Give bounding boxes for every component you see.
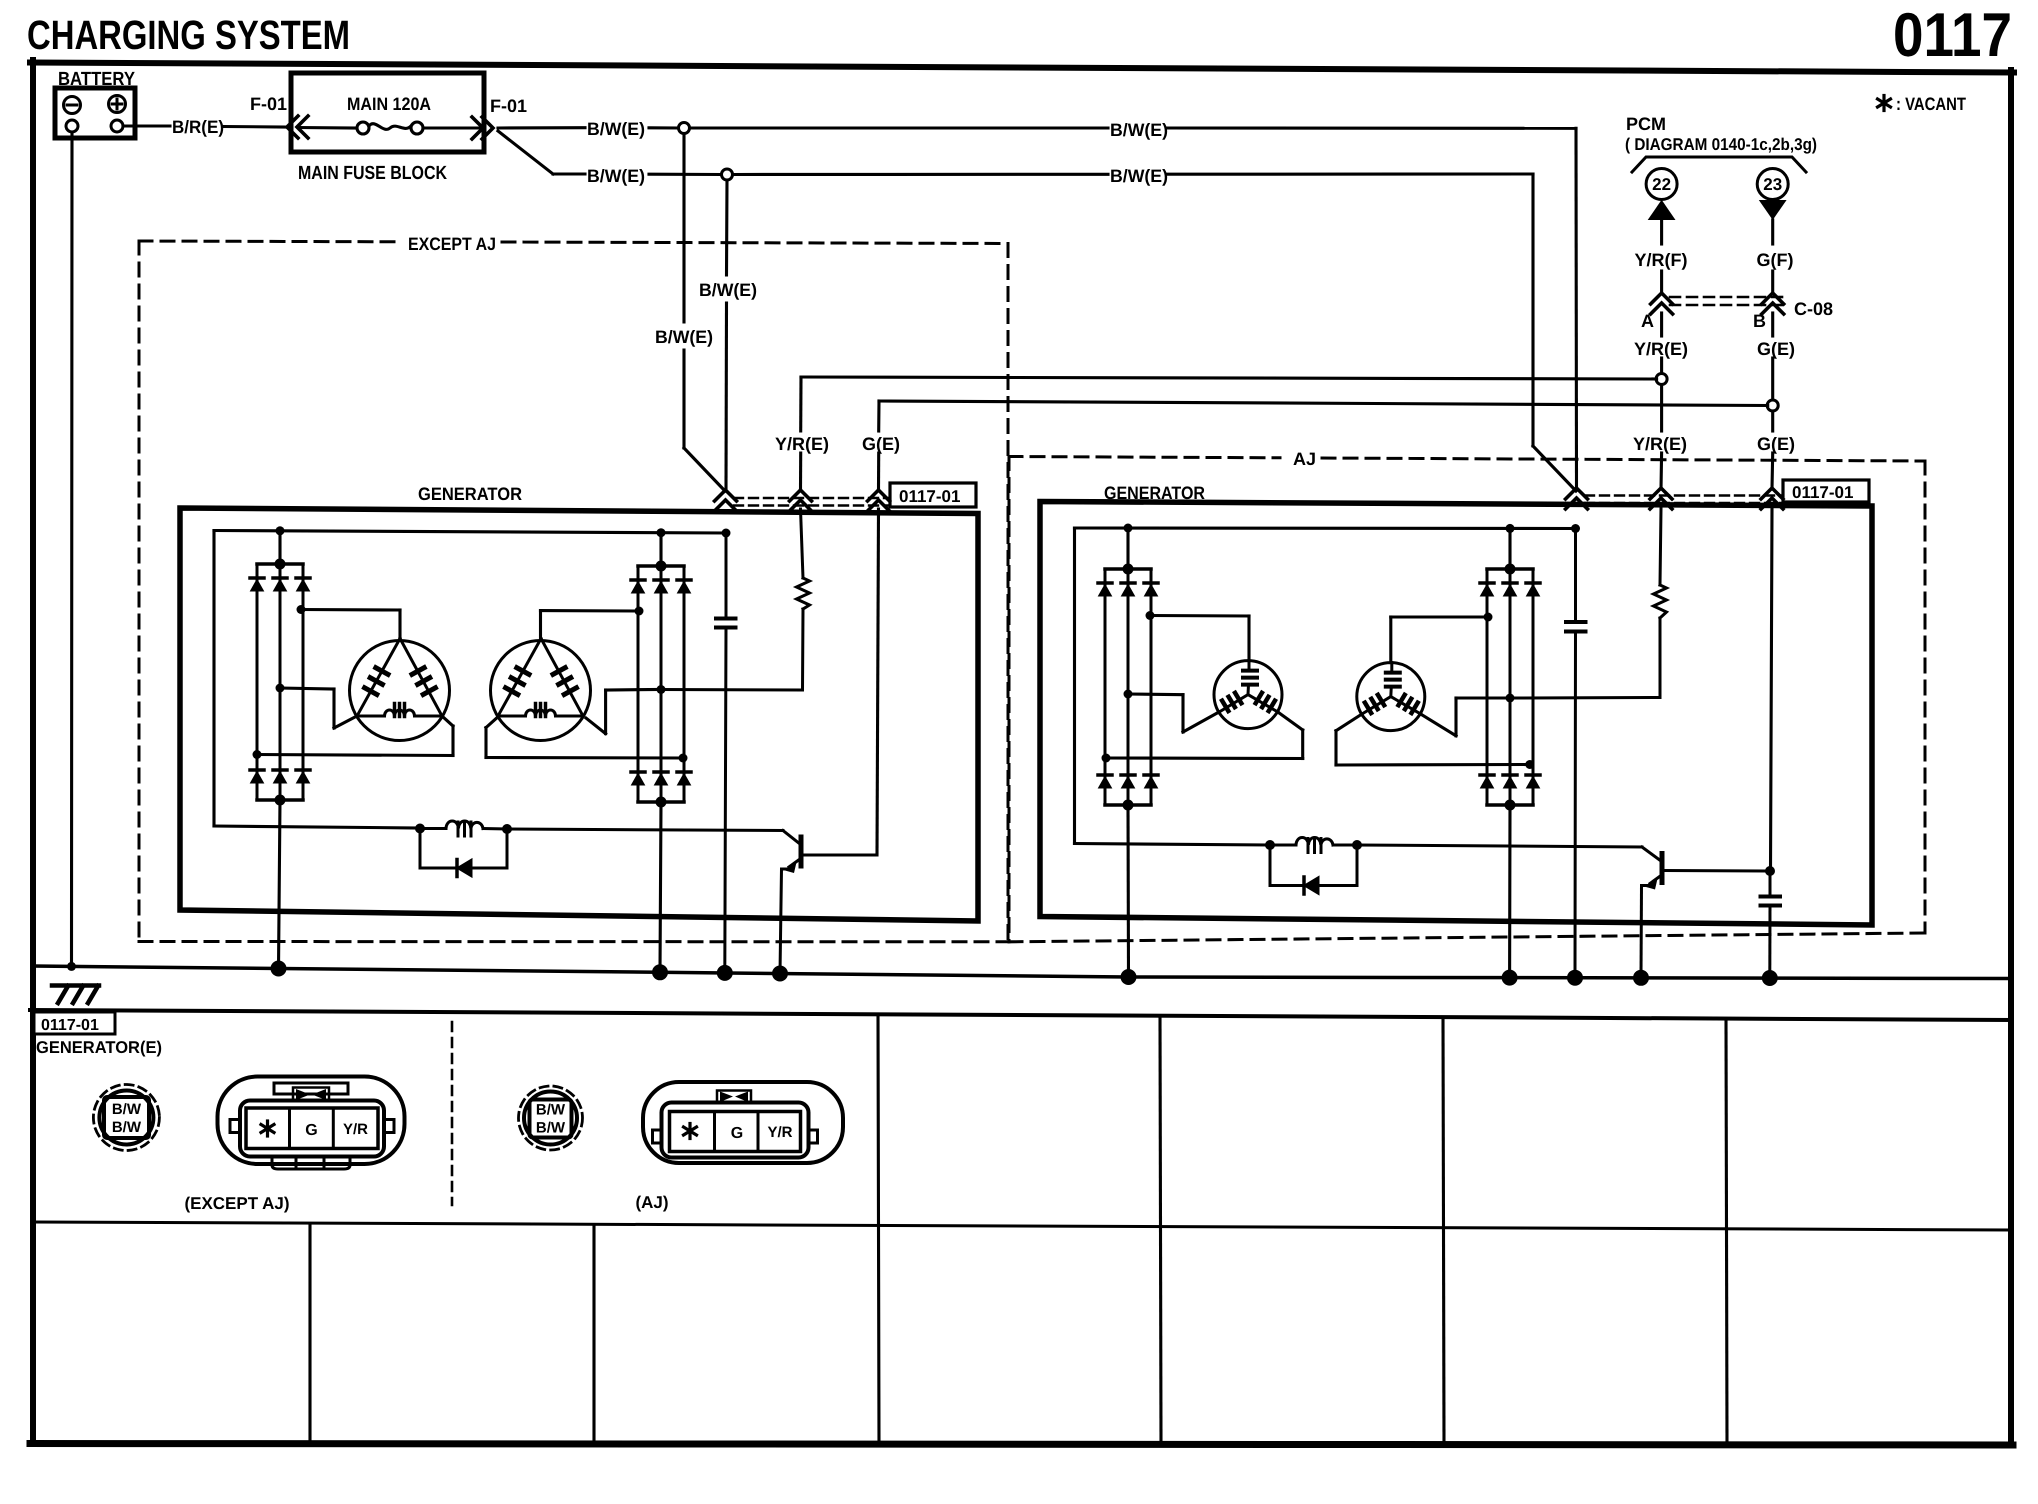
ground node transistor AJ <box>1633 970 1649 986</box>
rectifier 1 left generator <box>250 559 310 806</box>
wire battery negative to ground <box>67 132 76 971</box>
table row divider <box>33 1222 2011 1230</box>
connector C-08 pin B chevron <box>1753 293 1784 331</box>
node transistor base AJ <box>1765 866 1775 876</box>
label B/W(E) wire2 mid <box>1110 166 1168 186</box>
svg-text:Y/R(E): Y/R(E) <box>1634 339 1688 359</box>
svg-text:F-01: F-01 <box>490 96 527 116</box>
svg-text:Y/R: Y/R <box>767 1124 792 1141</box>
label B/W(E) wire2 left <box>587 166 645 186</box>
wire Y/R(E) branch to left generator <box>801 377 1657 489</box>
main fuse block box <box>291 73 484 152</box>
ground node rectifier1 AJ <box>1121 969 1137 985</box>
svg-text:B/W(E): B/W(E) <box>1110 120 1168 140</box>
label G(F) <box>1757 250 1794 270</box>
wire rectifier1 center down to ground <box>279 800 281 969</box>
stator 2 AJ generator <box>1357 663 1425 731</box>
ground node rectifier2 left <box>652 964 668 980</box>
wire Y/R(E) lower <box>1659 385 1663 490</box>
ground node rectifier1 left <box>271 961 287 977</box>
wire G(E) lower <box>1770 411 1774 489</box>
label B/W(E) wire1 left <box>587 119 645 139</box>
table top line <box>30 1010 2011 1020</box>
connector C-08 pin A chevron <box>1641 293 1673 331</box>
wire rectifier2 center down to ground <box>660 802 661 972</box>
node rail-rectifier1 AJ <box>1124 524 1133 533</box>
label C-08 <box>1794 299 1833 319</box>
label MAIN 120A <box>347 94 431 114</box>
svg-text:B/W(E): B/W(E) <box>587 166 645 186</box>
svg-text:B/W(E): B/W(E) <box>699 280 757 300</box>
svg-text:GENERATOR(E): GENERATOR(E) <box>36 1038 162 1057</box>
tag 0117-01 table <box>34 1012 115 1034</box>
wire G(E) into transistor base left generator <box>877 509 879 855</box>
internal top rail left generator <box>214 531 726 534</box>
svg-text:EXCEPT AJ: EXCEPT AJ <box>408 234 496 254</box>
capacitor 1 AJ generator <box>1566 529 1586 977</box>
wire Y/R(E) upper <box>1660 313 1663 374</box>
tap AJ rectifier2 phase V <box>1421 694 1515 736</box>
tap rectifier1 phase V <box>276 684 358 729</box>
svg-text:MAIN 120A: MAIN 120A <box>347 94 431 114</box>
ground node capacitor1 AJ <box>1567 970 1583 986</box>
wire G(E) upper <box>1771 313 1774 400</box>
PCM pin 23 <box>1757 169 1788 221</box>
wire B/W(E) no.1 <box>498 126 1576 130</box>
wire drop from wire1 node to left generator <box>684 134 725 492</box>
label GENERATOR AJ <box>1104 483 1205 503</box>
svg-text:AJ: AJ <box>1293 449 1316 469</box>
tap rectifier2 phase V <box>586 685 666 734</box>
field winding inductor left generator <box>415 821 783 836</box>
label B/W(E) on drop x684 <box>655 327 713 347</box>
internal left rail + field feed wire AJ <box>1075 528 1271 845</box>
internal top rail AJ generator <box>1075 526 1576 530</box>
node G junction <box>1767 400 1778 411</box>
node rail-rectifier2 AJ <box>1506 524 1515 533</box>
label MAIN FUSE BLOCK <box>298 163 447 184</box>
wire B/W(E) no.2 <box>498 131 1533 175</box>
label (EXCEPT AJ) <box>185 1194 290 1213</box>
label GENERATOR(E) <box>36 1038 162 1057</box>
node rail-capacitor AJ <box>1571 524 1580 533</box>
svg-text:Y/R(E): Y/R(E) <box>1633 434 1687 454</box>
wire rectifier1 center up <box>278 531 281 564</box>
label AJ <box>1293 449 1316 469</box>
node on wire1 <box>679 123 690 134</box>
node rail-rectifier2 <box>657 528 666 537</box>
battery label <box>58 69 135 90</box>
rectifier 2 left generator <box>631 561 691 808</box>
svg-text:G(E): G(E) <box>1757 339 1795 359</box>
ground bus wire <box>33 966 2011 979</box>
wire G(E) into AJ generator <box>1771 509 1773 871</box>
wire drop from wire2 to AJ generator <box>1533 174 1576 491</box>
svg-text:B/W(E): B/W(E) <box>1110 166 1168 186</box>
svg-text:( DIAGRAM 0140-1c,2b,3g): ( DIAGRAM 0140-1c,2b,3g) <box>1625 135 1817 154</box>
connector F-01 left <box>250 94 308 138</box>
field winding inductor AJ generator <box>1265 837 1642 852</box>
svg-text:CHARGING SYSTEM: CHARGING SYSTEM <box>27 12 350 58</box>
tap rectifier2 phase U <box>541 607 644 640</box>
AJ dashed box <box>1009 457 1925 942</box>
connector C-08 dashed link <box>1670 297 1786 305</box>
dashed boundary link left generator <box>734 498 888 506</box>
svg-text:B/W: B/W <box>536 1120 566 1137</box>
battery <box>55 88 135 138</box>
stator 2 left generator <box>491 639 591 741</box>
tag 0117-01 left generator <box>890 483 976 507</box>
PCM label <box>1625 114 1817 154</box>
rectifier 2 AJ generator <box>1480 564 1540 811</box>
tap AJ rectifier2 phase W <box>1336 714 1534 769</box>
svg-text:22: 22 <box>1652 175 1671 194</box>
svg-text:0117-01: 0117-01 <box>41 1017 99 1034</box>
node rail-capacitor <box>722 529 731 538</box>
svg-text:: VACANT: : VACANT <box>1896 94 1966 114</box>
AJ generator box <box>1040 502 1872 926</box>
internal left rail + field feed wire <box>214 531 420 829</box>
svg-text:F-01: F-01 <box>250 94 287 114</box>
oval connector (AJ) <box>643 1082 843 1163</box>
svg-text:G: G <box>731 1125 743 1142</box>
flyback diode left generator <box>420 829 507 877</box>
svg-text:Y/R(F): Y/R(F) <box>1635 250 1688 270</box>
svg-text:23: 23 <box>1763 175 1782 194</box>
label EXCEPT AJ <box>408 234 496 254</box>
svg-text:B/W: B/W <box>112 1119 142 1136</box>
wire rectifier1 center down to ground AJ <box>1126 805 1130 978</box>
label G(E) left <box>862 434 900 454</box>
EXCEPT AJ dashed box <box>139 241 1008 942</box>
tap rectifier1 phase W <box>253 716 454 759</box>
wire rectifier2 center up AJ <box>1508 528 1511 569</box>
svg-text:G(E): G(E) <box>1757 434 1795 454</box>
rectifier 1 AJ generator <box>1098 564 1158 811</box>
svg-text:G(E): G(E) <box>862 434 900 454</box>
label (AJ) <box>635 1193 668 1212</box>
page number 0117 <box>1893 1 2012 70</box>
stator 1 AJ generator <box>1214 661 1282 729</box>
label B/R(E) <box>172 117 224 137</box>
connector chevrons into AJ generator <box>1566 488 1784 509</box>
wire drop from wire2 node to left generator <box>726 180 727 489</box>
label Y/R(E) lower <box>1633 434 1687 454</box>
svg-text:C-08: C-08 <box>1794 299 1833 319</box>
round connector B/W (AJ) <box>519 1086 583 1150</box>
svg-text:B/R(E): B/R(E) <box>172 117 224 137</box>
label B/W(E) wire1 mid <box>1110 120 1168 140</box>
wire Y/R(F) <box>1660 220 1663 293</box>
dashed boundary link AJ generator <box>1585 496 1781 504</box>
wire drop from wire1 to AJ generator <box>1574 128 1578 490</box>
svg-text:PCM: PCM <box>1626 114 1666 134</box>
round connector B/W (EXCEPT AJ) <box>93 1085 159 1151</box>
tag 0117-01 AJ generator <box>1783 480 1869 502</box>
svg-text:B/W(E): B/W(E) <box>587 119 645 139</box>
label Y/R(F) <box>1635 250 1688 270</box>
wire B/R(E) battery to fuse <box>123 126 285 127</box>
dashed divider in connector cell <box>451 1022 454 1205</box>
label Y/R(E) left <box>775 434 829 454</box>
label B/W(E) on drop x727 <box>699 280 757 300</box>
label Y/R(E) upper <box>1634 339 1688 359</box>
tap rectifier1 phase U <box>297 605 401 639</box>
tap AJ rectifier1 phase W <box>1102 712 1303 762</box>
PCM pin 22 <box>1646 169 1677 221</box>
wire rectifier1 center up AJ <box>1126 528 1129 569</box>
label GENERATOR left <box>418 484 522 504</box>
tap rectifier2 phase W <box>486 718 688 763</box>
fuse MAIN 120A element <box>298 122 481 134</box>
connector F-01 right <box>472 96 527 139</box>
svg-text:0117-01: 0117-01 <box>899 487 960 506</box>
ground node capacitor left <box>717 965 733 981</box>
svg-text:0117: 0117 <box>1893 1 2012 70</box>
svg-text:A: A <box>1641 311 1654 331</box>
title CHARGING SYSTEM <box>27 12 350 58</box>
table bottom border <box>30 1444 2013 1446</box>
label G(E) upper <box>1757 339 1795 359</box>
node on wire2 <box>722 169 733 180</box>
ground node rectifier2 AJ <box>1502 970 1518 986</box>
svg-text:Y/R(E): Y/R(E) <box>775 434 829 454</box>
vacant note <box>1878 94 1967 114</box>
wire rectifier2 center up <box>659 533 662 566</box>
node Y/R junction <box>1656 374 1667 385</box>
capacitor left generator <box>716 533 736 972</box>
svg-text:0117-01: 0117-01 <box>1792 483 1853 502</box>
svg-text:G: G <box>305 1122 317 1139</box>
svg-text:B/W: B/W <box>536 1102 566 1119</box>
resistor left generator <box>661 509 810 690</box>
node rail-rectifier1 <box>276 526 285 535</box>
svg-text:(EXCEPT AJ): (EXCEPT AJ) <box>185 1194 290 1213</box>
wire rectifier2 center down to ground AJ <box>1508 805 1512 977</box>
ground symbol <box>52 986 99 1004</box>
transistor left generator <box>780 831 877 974</box>
svg-text:B: B <box>1753 311 1766 331</box>
stator 1 left generator <box>350 639 450 741</box>
flyback diode AJ generator <box>1270 845 1357 894</box>
label G(E) lower <box>1757 434 1795 454</box>
oval connector (EXCEPT AJ) <box>218 1077 405 1170</box>
tap AJ rectifier2 phase U <box>1391 613 1493 663</box>
wire G(E) branch to left generator <box>879 401 1768 489</box>
connector chevrons into left generator <box>715 490 890 511</box>
svg-text:GENERATOR: GENERATOR <box>418 484 522 504</box>
svg-text:B/W(E): B/W(E) <box>655 327 713 347</box>
ground node transistor left <box>772 966 788 982</box>
capacitor 2 AJ generator <box>1761 871 1781 977</box>
svg-text:B/W: B/W <box>112 1101 142 1118</box>
svg-text:Y/R: Y/R <box>343 1121 368 1138</box>
svg-text:MAIN FUSE BLOCK: MAIN FUSE BLOCK <box>298 163 447 184</box>
resistor AJ generator <box>1510 509 1667 698</box>
transistor AJ generator <box>1641 847 1765 976</box>
left generator box <box>180 508 978 921</box>
wire G(F) <box>1771 220 1774 293</box>
table column lines <box>310 1015 1727 1444</box>
ground node capacitor2 AJ <box>1762 970 1778 986</box>
svg-text:(AJ): (AJ) <box>635 1193 668 1212</box>
tap AJ rectifier1 phase U <box>1146 611 1250 661</box>
tap AJ rectifier1 phase V <box>1124 690 1220 733</box>
svg-text:G(F): G(F) <box>1757 250 1794 270</box>
PCM bracket <box>1632 157 1806 172</box>
